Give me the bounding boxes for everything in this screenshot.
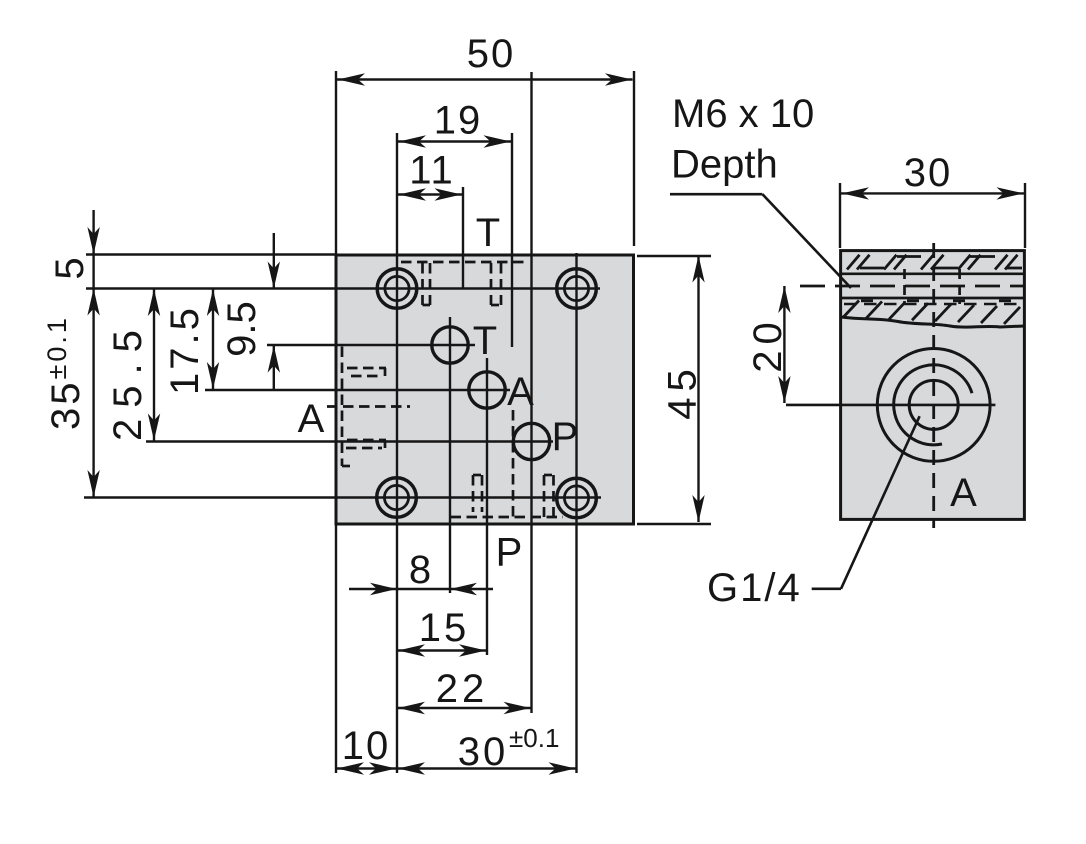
mounting hole M6 top-left [377,269,417,309]
G1/4 port inner circle [909,380,958,429]
G1/4 port outer circle [877,349,990,462]
svg-text:10: 10 [342,724,391,768]
svg-text:50: 50 [467,32,516,76]
dashed notch near top-left hole [423,263,431,305]
dashed notch near bottom-left port area [473,475,482,512]
extension line dim 11 right [462,187,464,288]
dashed port A side centerline [327,405,410,408]
centerline right mounting holes vertical [575,253,577,773]
mounting hole M6 bottom-left [377,478,417,518]
label P bottom [496,531,523,575]
leader line G1/4 [812,416,920,589]
label T top [476,211,500,255]
extension line plate top edge left [86,253,336,255]
svg-text:30: 30 [458,730,509,774]
dimension 30 depth [840,151,1025,248]
dashed footprint bottom edge [451,516,564,519]
dimension 22 [397,667,532,714]
centerline port A vertical [486,358,488,655]
dashed thread bottom left hole [903,269,906,304]
M6 hole lower wall line [841,297,1025,300]
svg-text:M6 x 10: M6 x 10 [672,92,814,136]
dashed notch near top port area [491,263,501,305]
centerline port T vertical [449,317,451,593]
dashed notch near bottom-right hole [544,475,554,517]
svg-text:A: A [507,370,534,414]
side view vertical dashed centerline [932,243,935,528]
port T circle [432,327,468,363]
dashed footprint left edge [342,347,350,467]
centerline port T horizontal [267,344,475,346]
svg-text:A: A [950,471,977,515]
M6 hole dashed centerline [800,285,1024,288]
extension line plate right edge top [633,71,635,246]
G1/4 thread arc [894,365,972,445]
port P circle [513,423,549,459]
svg-text:P: P [552,415,579,459]
svg-text:5: 5 [48,257,92,279]
wavy break line [841,317,1024,327]
side view block body [841,251,1025,520]
dashed slot lower left [346,440,386,448]
label T port [473,319,497,363]
svg-text:P: P [496,531,523,575]
dimension 10 [336,724,397,775]
dashed thread line below hole [844,303,1022,306]
svg-text:17.5: 17.5 [163,305,207,395]
svg-text:25.5: 25.5 [106,319,150,441]
centerline top mounting holes [86,287,600,289]
label A left [298,397,325,441]
svg-text:8: 8 [409,548,431,592]
dashed slot upper left [347,368,386,376]
dimension 19 [398,99,511,148]
port A circle [469,372,505,408]
dimension 15 [397,606,487,657]
extension line plate left edge vertical [335,71,337,773]
svg-text:22: 22 [436,667,489,711]
centerline port P vertical [530,72,532,713]
label P port [552,415,579,459]
centerline port A horizontal [205,389,510,391]
dimension 45 [637,256,711,525]
svg-text:A: A [298,397,325,441]
svg-text:45: 45 [661,363,705,420]
svg-text:9.5: 9.5 [220,301,264,357]
centerline left mounting holes vertical [396,133,398,773]
svg-text:T: T [473,319,497,363]
svg-text:T: T [476,211,500,255]
centerline bottom mounting holes [84,496,601,498]
hatch band upper (section) [847,255,1022,270]
svg-text:20: 20 [746,316,790,373]
svg-text:19: 19 [434,99,483,143]
dashed footprint right edge [512,410,515,517]
mounting hole M6 bottom-right [557,478,597,518]
svg-text:G1/4: G1/4 [707,566,802,610]
dimension 8 [349,548,493,595]
svg-text:11: 11 [409,149,455,193]
dimension 17.5 [163,289,219,395]
label G1/4 [707,566,802,610]
dimension 25.5 [106,289,160,442]
label M6 x 10 Depth [671,92,814,186]
dimension 20 [746,286,791,403]
extension line dim 19 right [511,133,513,347]
dimension 35 +-0.1 [42,254,100,497]
plate front view (left view body) [336,255,634,524]
leader line M6 [670,194,851,288]
dimension 5 [48,210,100,280]
M6 hole upper wall line [841,272,1025,275]
label A port [507,370,534,414]
svg-text:15: 15 [419,606,470,650]
dimension 50 [337,32,633,86]
dashed thread bottom right hole [958,269,961,304]
dimension 11 [398,149,462,201]
svg-text:Depth: Depth [671,143,778,187]
label A side view [950,471,977,515]
dimension 9.5 [220,233,280,390]
dashed valve footprint top edge [401,261,524,264]
mounting hole M6 top-right [557,269,597,309]
centerline port P horizontal [146,440,553,442]
svg-text:±0.1: ±0.1 [509,723,559,753]
hatch band lower (section) [843,301,1020,324]
dimension 30 +-0.1 [397,723,577,775]
svg-text:30: 30 [904,151,953,195]
side view horizontal centerline [786,404,995,407]
